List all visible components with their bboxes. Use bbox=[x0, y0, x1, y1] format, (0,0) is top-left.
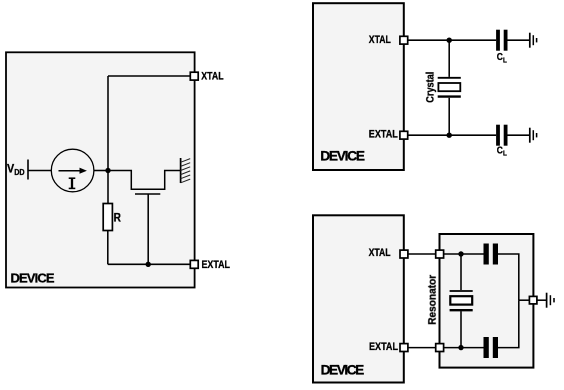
wire VDD to current source bbox=[28, 170, 52, 172]
label DEVICE (top right) bbox=[320, 148, 365, 163]
VDD terminal bar bbox=[27, 160, 29, 180]
junction node (resonator top) bbox=[458, 251, 463, 256]
crystal Y1 top lead bbox=[448, 40, 450, 77]
label DEVICE (bottom right) bbox=[321, 363, 365, 378]
capacitor CL top (plates) bbox=[496, 30, 507, 51]
label I bbox=[69, 178, 76, 188]
svg-text:XTAL: XTAL bbox=[369, 34, 391, 46]
label EXTAL (top right) bbox=[369, 128, 398, 140]
resistor R bbox=[103, 204, 112, 231]
junction node B (gate to rail) bbox=[146, 262, 151, 267]
label XTAL (left) bbox=[201, 71, 224, 83]
wire node A up to top rail bbox=[107, 76, 109, 204]
capacitor top (resonator internal) bbox=[484, 244, 499, 265]
label XTAL (top right) bbox=[369, 34, 391, 46]
wire EXTAL to capacitor bbox=[408, 134, 496, 136]
svg-text:XTAL: XTAL bbox=[201, 71, 224, 83]
svg-text:DEVICE: DEVICE bbox=[320, 148, 365, 163]
svg-text:EXTAL: EXTAL bbox=[202, 259, 231, 271]
crystal Y1 top plate bbox=[438, 77, 461, 79]
device box U3 (bottom right DEVICE) bbox=[313, 215, 404, 382]
crystal Y1 bottom lead bbox=[448, 98, 450, 135]
resonator pin (bottom left) bbox=[436, 344, 444, 352]
label EXTAL (left) bbox=[202, 259, 231, 271]
label EXTAL (bottom right) bbox=[369, 341, 398, 353]
wire capacitor to ground (bottom) bbox=[508, 134, 530, 136]
svg-text:CL: CL bbox=[497, 145, 508, 158]
resonator crystal bottom lead bbox=[460, 311, 462, 347]
label Resonator (rotated) bbox=[427, 274, 439, 325]
label Crystal (rotated) bbox=[425, 72, 437, 103]
pin EXTAL (left device) bbox=[190, 260, 198, 268]
current source I (circle) bbox=[51, 149, 94, 192]
wire top capacitor to right bus bbox=[498, 254, 519, 300]
wire XTAL to capacitor bbox=[408, 39, 496, 41]
svg-text:Resonator: Resonator bbox=[427, 274, 439, 325]
wire bottom capacitor to right bus bbox=[498, 300, 519, 347]
wire top rail to XTAL pin bbox=[108, 75, 190, 77]
substrate bar (bulk terminal) bbox=[180, 158, 182, 183]
svg-text:CL: CL bbox=[497, 52, 508, 65]
resonator crystal top lead bbox=[460, 254, 462, 290]
ground (top right, rotated) bbox=[530, 33, 537, 48]
wire capacitor to ground (top) bbox=[508, 39, 530, 41]
wire EXTAL to resonator bbox=[408, 347, 436, 349]
resonator crystal bottom plate bbox=[450, 309, 473, 311]
device box U2 (top right DEVICE) bbox=[313, 3, 404, 170]
capacitor CL bottom (plates) bbox=[496, 125, 507, 146]
label DEVICE (left) bbox=[11, 270, 55, 285]
wire current source to node A bbox=[94, 170, 108, 172]
junction node (EXTAL line) bbox=[447, 133, 452, 138]
substrate hatch marks bbox=[181, 159, 191, 183]
wire resistor bottom to bottom rail bbox=[107, 231, 109, 265]
wire XTAL to resonator bbox=[408, 253, 436, 255]
svg-text:EXTAL: EXTAL bbox=[369, 128, 398, 140]
device box U1 (left DEVICE) bbox=[6, 52, 195, 287]
resonator pin (top left) bbox=[436, 250, 444, 258]
junction node A bbox=[105, 168, 110, 173]
pin EXTAL (top right device) bbox=[400, 131, 408, 139]
transistor Q1 channel path (drain-source) bbox=[108, 171, 180, 190]
label XTAL (bottom right) bbox=[369, 247, 391, 259]
wire ground pin to ground symbol bbox=[537, 299, 546, 301]
crystal Y1 body bbox=[438, 83, 460, 91]
current source arrow bbox=[59, 168, 87, 174]
pin XTAL (left device) bbox=[190, 72, 198, 80]
node VDD label bbox=[7, 163, 25, 177]
svg-text:DEVICE: DEVICE bbox=[11, 270, 55, 285]
capacitor bottom (resonator internal) bbox=[484, 337, 499, 358]
wire bottom rail to EXTAL pin bbox=[108, 263, 191, 265]
resonator box bbox=[440, 234, 534, 368]
pin XTAL (top right device) bbox=[400, 36, 408, 44]
ground (bottom of top-right, rotated) bbox=[530, 128, 537, 143]
wire resonator top internal bbox=[444, 253, 485, 255]
svg-text:EXTAL: EXTAL bbox=[369, 341, 398, 353]
svg-text:XTAL: XTAL bbox=[369, 247, 391, 259]
resonator crystal body bbox=[450, 296, 472, 304]
junction node (XTAL line) bbox=[447, 38, 452, 43]
junction node (resonator bottom) bbox=[458, 345, 463, 350]
wire gate to bottom rail bbox=[147, 194, 149, 264]
svg-text:Crystal: Crystal bbox=[425, 72, 437, 103]
transistor Q1 gate bar bbox=[135, 193, 160, 195]
svg-text:DEVICE: DEVICE bbox=[321, 363, 365, 378]
resonator crystal top plate bbox=[450, 290, 473, 292]
pin EXTAL (bottom right device) bbox=[400, 344, 408, 352]
crystal Y1 bottom plate bbox=[438, 95, 461, 97]
wire right bus to ground pin bbox=[519, 299, 530, 301]
label CL (bottom) bbox=[497, 145, 508, 158]
ground (bottom right, rotated) bbox=[547, 293, 554, 308]
pin XTAL (bottom right device) bbox=[400, 250, 408, 258]
svg-text:R: R bbox=[114, 212, 121, 225]
label R bbox=[114, 212, 121, 225]
wire resonator bottom internal bbox=[444, 347, 485, 349]
resonator pin (right, ground) bbox=[529, 296, 537, 304]
label CL (top) bbox=[497, 52, 508, 65]
